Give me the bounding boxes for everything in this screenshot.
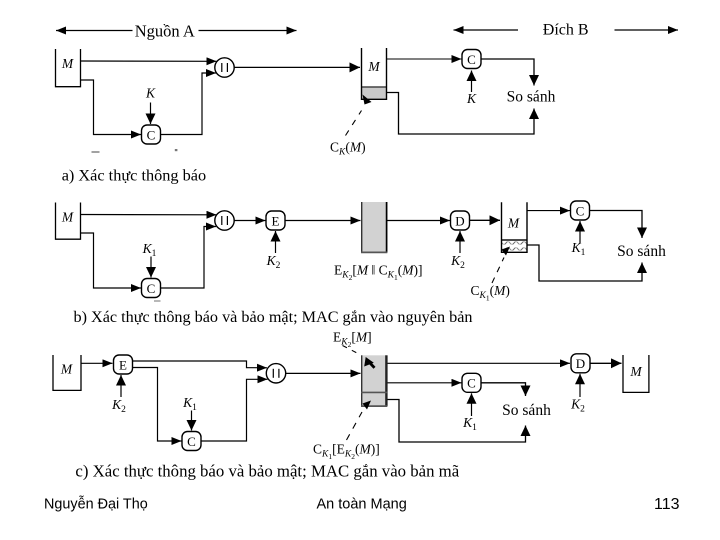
- svg-text:c) Xác thực thông báo và bảo m: c) Xác thực thông báo và bảo mật; MAC gắ…: [75, 462, 459, 481]
- svg-text:So sánh: So sánh: [502, 402, 551, 419]
- encrypt node E (c): [114, 355, 133, 374]
- wire ciphertext to C (c): [388, 382, 462, 384]
- wire C up to concat (b): [161, 227, 217, 289]
- svg-text:M: M: [629, 364, 642, 379]
- wire M down to C (b): [81, 233, 142, 288]
- MAC function C node (b source): [142, 279, 161, 298]
- encrypt node E (b): [266, 211, 285, 230]
- span arrow Dich B right: [615, 29, 679, 31]
- wire M to concat (b): [81, 214, 217, 216]
- svg-text:K: K: [145, 86, 156, 101]
- svg-text:Nguyễn Đại Thọ: Nguyễn Đại Thọ: [44, 496, 148, 513]
- wire concat to E (b): [234, 220, 265, 222]
- wire M to concat (a): [81, 60, 217, 62]
- wire C to compare (c): [481, 383, 526, 396]
- callout dashed line CK1(M) (b): [492, 258, 504, 284]
- wire C to compare (a): [481, 59, 534, 86]
- wire concat to ciphertext block (c): [286, 372, 361, 374]
- svg-text:D: D: [576, 356, 585, 371]
- wire ciphertext to D (b): [387, 220, 450, 222]
- span arrow Dich B left: [454, 29, 519, 31]
- svg-text:D: D: [455, 213, 464, 228]
- callout arrowhead (b): [502, 247, 511, 256]
- wire E to ciphertext block (b): [285, 220, 361, 222]
- svg-text:So sánh: So sánh: [507, 89, 556, 106]
- wire receiver M to C (b): [527, 210, 570, 212]
- wire E top to concat (c): [133, 361, 268, 368]
- wire C to compare (b): [590, 211, 643, 239]
- svg-text:K: K: [466, 91, 477, 106]
- svg-text:Đích B: Đích B: [543, 22, 589, 39]
- MAC function C node (b receiver): [571, 201, 590, 220]
- callout arrowhead bottom (c): [363, 401, 372, 410]
- svg-text:So sánh: So sánh: [617, 243, 666, 260]
- arrow K into C (a source): [150, 103, 152, 125]
- wire D to receiver M (c): [590, 362, 622, 364]
- wire hatched MAC to compare (b): [527, 245, 642, 281]
- source message box M (a): [56, 49, 81, 87]
- MAC function C node (a source): [142, 125, 161, 144]
- callout dashed line CK(M) (a): [346, 111, 362, 136]
- svg-text:M: M: [60, 362, 73, 377]
- concat node || (a): [215, 58, 234, 77]
- arrow K1 into C (b source): [150, 257, 152, 278]
- svg-text:M: M: [61, 210, 74, 225]
- wire M down to C (a): [81, 80, 142, 135]
- svg-text:C: C: [467, 52, 476, 67]
- source message box M (b): [56, 203, 81, 240]
- span arrow Nguon A: [56, 30, 297, 32]
- MAC function C node (c source): [182, 432, 201, 451]
- wire C up to concat (c): [201, 379, 268, 441]
- arrow K1 into C (b receiver): [579, 221, 581, 243]
- receiver message box M with MAC (a): [361, 48, 386, 99]
- wire E down to C (c): [133, 368, 182, 442]
- wire appended MAC to compare (c): [388, 400, 526, 443]
- svg-text:C: C: [576, 203, 585, 218]
- receiver message box M (c): [623, 355, 649, 392]
- arrow K1 into C (c receiver): [471, 393, 473, 416]
- arrow K2 into E (b): [275, 231, 277, 253]
- concat node || (c): [266, 364, 285, 383]
- wire C up to concat (a): [161, 73, 217, 135]
- svg-text:C: C: [147, 281, 156, 296]
- arrow K1 into C (c source): [191, 411, 193, 431]
- MAC function C node (a receiver): [462, 50, 481, 69]
- wire D to receiver M (b): [470, 219, 501, 221]
- source message box M (c): [53, 355, 81, 390]
- wire receiver M to C (a): [387, 58, 462, 60]
- callout arrowhead top (c): [364, 357, 374, 367]
- svg-text:An toàn Mạng: An toàn Mạng: [317, 497, 407, 513]
- svg-text:a) Xác thực thông báo: a) Xác thực thông báo: [62, 166, 206, 185]
- svg-text:C: C: [467, 376, 476, 391]
- callout dashed line EK2[M] (c): [343, 346, 361, 355]
- svg-text:C: C: [147, 127, 156, 142]
- ciphertext block (b): [361, 202, 387, 253]
- wire M to E (c): [81, 362, 113, 364]
- svg-text:M: M: [61, 56, 74, 71]
- wire MAC tag to compare (a): [387, 93, 535, 135]
- arrow K into C (a receiver): [471, 71, 473, 93]
- svg-text:M: M: [367, 59, 380, 74]
- receiver message box M with hatched MAC (b): [501, 202, 527, 252]
- concat node || (b): [215, 211, 234, 230]
- svg-text:Nguồn A: Nguồn A: [135, 22, 195, 41]
- decrypt node D (c): [571, 354, 590, 373]
- arrow K2 into D (b): [459, 231, 461, 253]
- svg-text:M: M: [507, 216, 520, 231]
- decrypt node D (b): [451, 211, 470, 230]
- callout arrowhead (a): [363, 95, 372, 105]
- artifact dot (a): [175, 149, 178, 151]
- ciphertext block with appended MAC (c): [361, 355, 387, 406]
- arrow K2 into E (c): [120, 375, 122, 397]
- svg-text:E: E: [119, 357, 127, 372]
- svg-text:C: C: [187, 434, 196, 449]
- svg-text:E: E: [272, 213, 280, 228]
- MAC function C node (c receiver): [462, 373, 481, 392]
- artifact dash (a): [92, 151, 100, 153]
- svg-text:113: 113: [654, 496, 680, 513]
- arrow K2 into D (c): [579, 374, 581, 397]
- wire concat to receiver M (a): [234, 66, 360, 68]
- artifact dash (b): [154, 300, 161, 302]
- callout dashed line CK1[EK2(M)] (c): [347, 412, 363, 440]
- svg-text:b) Xác thực thông báo và bảo m: b) Xác thực thông báo và bảo mật; MAC gắ…: [74, 308, 473, 326]
- wire ciphertext to D (c): [388, 362, 571, 364]
